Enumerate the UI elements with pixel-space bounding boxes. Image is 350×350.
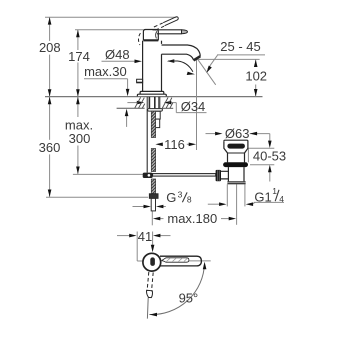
svg-text:208: 208 bbox=[39, 40, 61, 55]
svg-text:116: 116 bbox=[164, 137, 185, 152]
svg-text:8: 8 bbox=[187, 194, 192, 204]
svg-text:41: 41 bbox=[138, 229, 152, 244]
svg-text:174: 174 bbox=[68, 49, 90, 64]
svg-text:360: 360 bbox=[39, 140, 61, 155]
svg-text:max.180: max.180 bbox=[167, 211, 217, 226]
svg-text:40-53: 40-53 bbox=[253, 149, 286, 164]
svg-text:G1: G1 bbox=[254, 189, 271, 204]
svg-text:95°: 95° bbox=[179, 291, 199, 306]
svg-text:300: 300 bbox=[69, 131, 91, 146]
svg-text:max.30: max.30 bbox=[84, 64, 127, 79]
svg-text:25 - 45: 25 - 45 bbox=[220, 39, 260, 54]
svg-text:G: G bbox=[166, 190, 176, 205]
svg-text:Ø63: Ø63 bbox=[225, 126, 250, 141]
svg-text:1: 1 bbox=[272, 186, 277, 196]
svg-text:102: 102 bbox=[245, 68, 267, 83]
svg-text:3: 3 bbox=[178, 189, 183, 199]
svg-text:Ø48: Ø48 bbox=[105, 47, 130, 62]
svg-text:Ø34: Ø34 bbox=[181, 99, 206, 114]
svg-text:4: 4 bbox=[279, 194, 284, 204]
